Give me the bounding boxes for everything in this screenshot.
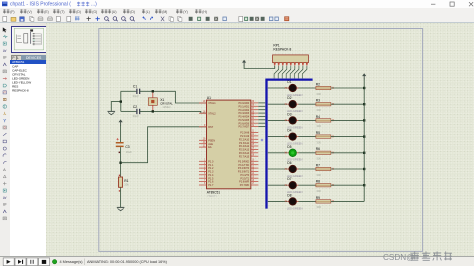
wire R7 to VCC rail <box>331 168 364 170</box>
svg-text:CSDN@: CSDN@ <box>383 253 415 262</box>
svg-text:30pF: 30pF <box>133 94 139 98</box>
pin-end marks row 5 <box>285 152 287 154</box>
wire R8 to VCC rail <box>331 184 364 186</box>
wire VCC rail <box>363 79 365 202</box>
svg-text:R8: R8 <box>316 180 320 184</box>
svg-text:300: 300 <box>316 108 321 112</box>
step button <box>15 258 26 266</box>
resistor R8 300 <box>316 180 331 193</box>
svg-text:D3: D3 <box>287 112 291 116</box>
wire C1 left <box>121 90 137 92</box>
resistor R9 300 <box>316 196 331 209</box>
bus label anchor <box>261 139 263 141</box>
wire bus to LED D5 <box>268 152 287 154</box>
junction rail row 6 <box>363 168 365 170</box>
svg-text:D8: D8 <box>287 193 291 197</box>
svg-text:R9: R9 <box>316 196 320 200</box>
node XTAL1 junction <box>152 90 154 92</box>
wire bus to LED D2 <box>268 103 287 105</box>
led D4 LED-GREEN <box>287 129 303 146</box>
power VCC (RP1 common) <box>242 60 246 63</box>
resistor R6 300 <box>316 147 331 160</box>
svg-text:P2.7/A15: P2.7/A15 <box>239 155 250 158</box>
wire LED to R4 <box>298 119 316 121</box>
svg-text:P3.7/RD: P3.7/RD <box>240 184 250 187</box>
power VCC (reset) <box>119 119 123 122</box>
svg-text:D2: D2 <box>287 96 291 100</box>
junction reset node <box>119 162 121 164</box>
mcu U1 AT89C51 <box>207 96 251 198</box>
wire VCC to RP1 pin1 <box>244 65 275 68</box>
left tool strip <box>0 23 11 256</box>
svg-text:R7: R7 <box>316 163 320 167</box>
wire R9 to VCC rail <box>331 200 364 202</box>
wire C3 to R1 <box>120 147 122 177</box>
wire VCC to C3 <box>120 125 122 142</box>
resistor R2 300 <box>316 82 331 95</box>
wire LED to R5 <box>298 136 316 138</box>
ground (crystal caps) <box>108 102 121 115</box>
svg-text:C1: C1 <box>133 85 137 89</box>
pin-end marks row 6 <box>285 168 287 170</box>
sheet border <box>99 29 423 252</box>
svg-text:R6: R6 <box>316 147 320 151</box>
svg-text:300: 300 <box>316 157 321 161</box>
resistor R1 <box>119 175 130 192</box>
junction rail row 2 <box>363 103 365 105</box>
svg-text:P1.7: P1.7 <box>208 184 214 187</box>
svg-text:10k: 10k <box>124 182 129 186</box>
svg-text:<TEXT>: <TEXT> <box>207 194 218 198</box>
led D3 LED-GREEN <box>287 112 303 129</box>
wire LED to R3 <box>298 103 316 105</box>
ground (reset) <box>117 206 125 208</box>
svg-text:R2: R2 <box>316 82 320 86</box>
pin-end marks row 7 <box>285 184 287 186</box>
svg-text:U1: U1 <box>207 96 211 100</box>
svg-text:D4: D4 <box>287 129 291 133</box>
menu bar <box>0 8 474 15</box>
wire LED to R7 <box>298 168 316 170</box>
wire LED to R9 <box>298 200 316 202</box>
svg-text:XTAL2: XTAL2 <box>208 112 216 115</box>
wire bus to LED D8 <box>268 200 287 202</box>
led D2 LED-GREEN <box>287 96 303 113</box>
wire LED to R6 <box>298 152 316 154</box>
pause button <box>27 258 38 266</box>
svg-text:EA: EA <box>208 146 212 149</box>
svg-text:D6: D6 <box>287 161 291 165</box>
pin-end marks row 3 <box>285 119 287 121</box>
svg-text:R1: R1 <box>124 179 128 183</box>
svg-text:D5: D5 <box>287 145 291 149</box>
svg-text:R4: R4 <box>316 115 320 119</box>
capacitor C2 <box>133 105 140 118</box>
wire R6 to VCC rail <box>331 152 364 154</box>
pin-end marks row 2 <box>285 103 287 105</box>
capacitor C3 (electrolytic) <box>116 138 132 154</box>
wire R4 to VCC rail <box>331 119 364 121</box>
wire R1 to ground <box>120 187 122 207</box>
wire R2 to VCC rail <box>331 87 364 89</box>
capacitor C1 <box>133 85 140 98</box>
resistor pack RP1 RESPACK-8 <box>273 44 309 66</box>
U1 left pins <box>199 101 216 187</box>
node XTAL2 junction <box>152 110 154 112</box>
bus P0 <box>267 80 313 209</box>
resistor R5 300 <box>316 131 331 144</box>
status bar <box>0 256 474 266</box>
wire bus to LED D1 <box>268 87 287 89</box>
wire bus to LED D6 <box>268 168 287 170</box>
pin end C3 <box>119 152 121 154</box>
wire bus to LED D3 <box>268 119 287 121</box>
junction rail row 3 <box>363 119 365 121</box>
wire R3 to VCC rail <box>331 103 364 105</box>
resistor R7 300 <box>316 163 331 176</box>
power VCC (LED rail) <box>362 73 366 76</box>
svg-text:300: 300 <box>316 189 321 193</box>
component preview window <box>11 26 47 53</box>
wires RP1 pins to bus <box>274 66 307 79</box>
led D1 LED-GREEN <box>287 80 303 97</box>
junction rail row 4 <box>363 135 365 137</box>
wire bus to LED D7 <box>268 184 287 186</box>
wire reset node to RST <box>121 127 207 163</box>
editing canvas background <box>46 23 474 256</box>
wire LED to R2 <box>298 87 316 89</box>
resistor R3 300 <box>316 99 331 112</box>
svg-text:R3: R3 <box>316 99 320 103</box>
led D7 LED-GREEN <box>287 177 303 194</box>
toolbar <box>0 15 474 23</box>
U1 right pins <box>238 101 258 187</box>
panel/canvas separator <box>45 23 48 256</box>
svg-text:P0.7/AD7: P0.7/AD7 <box>238 126 249 129</box>
device list <box>10 60 47 256</box>
svg-text:300: 300 <box>316 140 321 144</box>
wire C1/C2 left vertical <box>120 91 122 111</box>
wire bus to LED D4 <box>268 136 287 138</box>
wire C2 right to XTAL2 <box>140 111 207 113</box>
title bar <box>0 0 474 9</box>
watermark <box>383 251 452 261</box>
wire R5 to VCC rail <box>331 136 364 138</box>
crystal X1 <box>148 91 173 111</box>
svg-text:D7: D7 <box>287 177 291 181</box>
junction ground tap <box>120 100 122 102</box>
pin-end marks row 1 <box>285 87 287 89</box>
svg-text:300: 300 <box>316 205 321 209</box>
junction rail row 7 <box>363 184 365 186</box>
svg-text:10uF: 10uF <box>126 150 132 154</box>
svg-text:12MHz: 12MHz <box>162 105 171 109</box>
svg-text:R5: R5 <box>316 131 320 135</box>
simulation log led <box>52 260 56 264</box>
svg-text:300: 300 <box>316 92 321 96</box>
pin-end marks row 8 <box>285 200 287 202</box>
wire LED to R8 <box>298 184 316 186</box>
play button <box>3 258 14 266</box>
svg-text:RESPACK-8: RESPACK-8 <box>273 47 291 51</box>
junction rail row 1 <box>363 87 365 89</box>
svg-text:30pF: 30pF <box>133 114 139 118</box>
object selector header <box>11 55 17 61</box>
wire C1 right to XTAL1 <box>140 91 207 103</box>
resistor R4 300 <box>316 115 331 128</box>
wire C2 left <box>121 110 137 112</box>
svg-text:CRYSTAL: CRYSTAL <box>160 101 173 105</box>
svg-text:RST: RST <box>208 126 213 129</box>
svg-text:300: 300 <box>316 173 321 177</box>
stop button <box>39 258 50 266</box>
led D8 LED-GREEN <box>287 193 303 210</box>
led D6 LED-GREEN <box>287 161 303 178</box>
svg-text:300: 300 <box>316 124 321 128</box>
svg-text:LED-GREEN: LED-GREEN <box>287 206 303 210</box>
svg-text:C3: C3 <box>125 145 129 149</box>
svg-text:XTAL1: XTAL1 <box>208 102 216 105</box>
wires P0 to bus <box>258 103 265 127</box>
svg-text:C2: C2 <box>133 105 137 109</box>
junction rail row 5 <box>363 152 365 154</box>
led D5 LED-GREEN (lit) <box>287 145 303 162</box>
pin-end marks row 4 <box>285 136 287 138</box>
svg-text:D1: D1 <box>287 80 291 84</box>
